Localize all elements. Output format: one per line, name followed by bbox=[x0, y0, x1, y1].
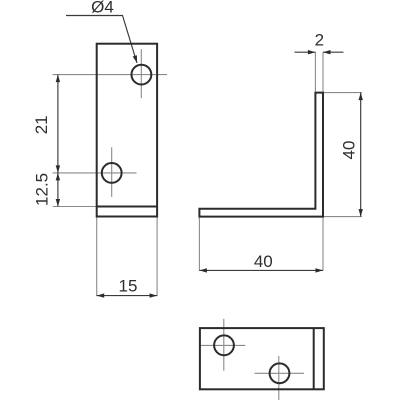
svg-text:40: 40 bbox=[254, 252, 273, 271]
svg-text:21: 21 bbox=[32, 115, 51, 134]
svg-text:2: 2 bbox=[315, 30, 324, 49]
svg-text:12.5: 12.5 bbox=[33, 173, 52, 206]
svg-text:40: 40 bbox=[340, 141, 359, 160]
svg-text:15: 15 bbox=[119, 277, 138, 296]
svg-text:Ø4: Ø4 bbox=[91, 0, 114, 17]
